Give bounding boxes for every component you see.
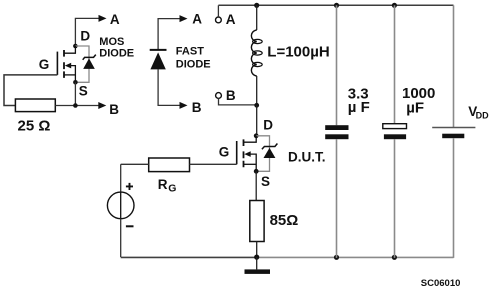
wire: 1000uF bottom lead xyxy=(394,139,396,258)
wire: top rail xyxy=(218,4,453,6)
svg-text:DIODE: DIODE xyxy=(176,58,211,70)
svg-text:D: D xyxy=(263,117,273,132)
generator circle xyxy=(107,192,134,219)
capacitor 3.3uF bottom plate xyxy=(325,134,348,139)
svg-text:DIODE: DIODE xyxy=(99,48,134,60)
svg-text:L=100µH: L=100µH xyxy=(267,43,329,60)
arrowhead B (left block) xyxy=(98,102,106,109)
terminal A circle xyxy=(216,17,222,23)
svg-text:µ F: µ F xyxy=(348,99,370,116)
MOSFET bottom stub (DUT) xyxy=(244,163,257,165)
svg-text:R: R xyxy=(158,177,168,192)
battery VDD minus plate (thick) xyxy=(442,134,464,139)
wire: VDD bottom lead xyxy=(453,138,455,258)
svg-text:A: A xyxy=(226,12,236,27)
node: top rail dot at 1000uF xyxy=(392,3,397,8)
MOSFET drain stub (DUT) xyxy=(244,136,257,142)
DUT body diode cathode bar xyxy=(262,144,278,150)
svg-text:G: G xyxy=(219,144,230,159)
wire: drain up to A arrow (left block) xyxy=(75,18,101,46)
generator inner line xyxy=(120,192,122,219)
node: drain dot (DUT) xyxy=(254,133,259,138)
arrowhead B (fast diode) xyxy=(180,102,188,109)
MOSFET source stub with arrow (left block) xyxy=(70,66,76,83)
inductor loop ellipse 3 xyxy=(253,62,263,66)
node: drain junction dot (left block) xyxy=(73,44,78,49)
wire: DUT body-diode branch loop xyxy=(256,136,269,172)
wire: inductor bottom to B node xyxy=(256,76,258,105)
wire: gen top lead xyxy=(120,164,122,192)
svg-text:A: A xyxy=(110,12,120,27)
wire: source gen to RG xyxy=(121,163,149,165)
fast diode triangle xyxy=(150,52,165,69)
svg-text:D: D xyxy=(80,28,90,43)
plus sign xyxy=(126,183,133,190)
svg-text:D.U.T.: D.U.T. xyxy=(288,149,326,164)
wire: fast diode bottom to B arrow xyxy=(158,69,179,105)
inductor loop ellipse 2 xyxy=(253,51,263,55)
battery VDD plus plate (thin) xyxy=(432,127,475,129)
body diode cathode bar (left block) xyxy=(83,55,96,60)
fast diode cathode bar xyxy=(150,49,167,51)
arrowhead A (fast diode) xyxy=(180,15,188,22)
node: source junction dot (left block) xyxy=(73,80,78,85)
svg-text:FAST: FAST xyxy=(176,46,204,58)
resistor RG box xyxy=(149,158,190,172)
node: B junction dot (main) xyxy=(254,103,259,108)
terminal B circle xyxy=(216,93,222,99)
MOSFET gate bar (left block) xyxy=(56,52,58,75)
resistor 85 Ohm box xyxy=(250,201,264,242)
svg-text:85Ω: 85Ω xyxy=(270,212,299,229)
wire: source down to B node (left block) xyxy=(74,82,76,105)
node: ground junction dot xyxy=(254,255,259,260)
wire: 3.3uF top lead xyxy=(336,5,338,125)
MOSFET substrate arrow (left block) xyxy=(65,63,71,69)
svg-text:DD: DD xyxy=(476,110,489,120)
node: top rail dot at 3.3uF xyxy=(334,3,339,8)
wire: 85 Ohm to ground node xyxy=(256,242,258,258)
svg-text:G: G xyxy=(39,57,50,72)
wire: gate lead left (left block) xyxy=(4,75,57,106)
svg-text:SC06010: SC06010 xyxy=(421,278,461,289)
body diode triangle (left block) xyxy=(83,58,95,69)
wire: bottom rail right xyxy=(257,256,454,258)
wire: top rail down to inductor xyxy=(256,5,258,30)
wire: ground stub xyxy=(256,257,258,269)
node: bottom dot at 1000uF xyxy=(392,255,397,260)
MOSFET gate bar (DUT) xyxy=(236,141,238,164)
wire: 3.3uF bottom lead xyxy=(336,139,338,258)
svg-text:µF: µF xyxy=(406,100,424,117)
svg-text:B: B xyxy=(226,88,236,103)
MOSFET channel segments (left block) xyxy=(63,50,65,78)
svg-text:S: S xyxy=(261,174,270,189)
MOSFET source stub (DUT) xyxy=(249,154,256,171)
svg-text:A: A xyxy=(192,11,202,26)
wire: A terminal stub up xyxy=(217,5,219,17)
inductor L coil xyxy=(251,30,256,76)
node: top rail dot at inductor xyxy=(254,3,259,8)
MOSFET substrate arrow (DUT) xyxy=(244,151,250,157)
wire: RG to gate xyxy=(190,163,237,165)
wire: VDD top lead xyxy=(453,5,455,127)
node: bottom dot at 3.3uF xyxy=(334,255,339,260)
svg-text:B: B xyxy=(192,100,202,115)
svg-text:B: B xyxy=(109,102,119,117)
capacitor 1000uF bottom plate xyxy=(384,134,406,139)
svg-text:S: S xyxy=(79,83,88,98)
wire: 1000uF top lead xyxy=(394,5,396,123)
arrowhead A (left block) xyxy=(99,15,107,22)
minus sign xyxy=(126,225,134,227)
resistor R 25 Ohm xyxy=(15,99,55,112)
svg-text:25 Ω: 25 Ω xyxy=(18,118,51,135)
MOSFET bottom stub (left block) xyxy=(64,74,75,76)
capacitor 1000uF top plate (hollow) xyxy=(383,124,407,129)
wire: B node down to drain xyxy=(256,105,258,136)
MOSFET channel segments (DUT) xyxy=(243,139,245,167)
wire: B terminal stub to main line xyxy=(219,98,257,105)
MOSFET drain stub (left block) xyxy=(64,46,75,53)
wire: 25 Ohm to B node xyxy=(55,105,99,107)
node: source dot (DUT) xyxy=(254,169,259,174)
wire: source dot to 85 Ohm xyxy=(255,171,257,200)
wire: body-diode branch loop (left block) xyxy=(75,46,89,82)
ground bar xyxy=(245,269,271,274)
wire: bottom rail left xyxy=(121,256,257,258)
node: B junction dot (left block) xyxy=(73,103,78,108)
svg-text:MOS: MOS xyxy=(99,36,124,48)
wire: gen bottom lead xyxy=(120,219,122,257)
DUT body diode triangle xyxy=(264,148,276,158)
capacitor 3.3uF top plate xyxy=(325,125,348,130)
inductor loop ellipse 1 xyxy=(253,39,263,43)
wire: fast diode top to A arrow xyxy=(158,19,179,50)
svg-text:G: G xyxy=(168,182,176,194)
